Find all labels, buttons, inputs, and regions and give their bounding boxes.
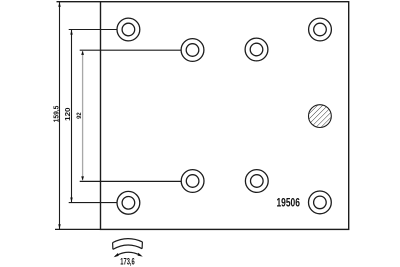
svg-text:173,6: 173,6 — [120, 257, 134, 267]
rivet hole H4 top-right — [309, 18, 332, 41]
extension line: bottom edge extended left — [55, 228, 101, 230]
rivet hole H5 bottom inner-left — [181, 170, 204, 193]
svg-text:159,5: 159,5 — [51, 106, 60, 123]
extension line to top outer hole row — [69, 29, 117, 31]
extension line to top inner hole row — [80, 49, 182, 51]
rivet hole H3 top inner-right — [245, 38, 268, 61]
lining cross-section symbol: outer arc — [113, 239, 143, 243]
svg-text:19506: 19506 — [277, 196, 301, 210]
arrowhead left of width arrow — [114, 253, 119, 257]
rivet hole H1 top-left — [117, 18, 140, 41]
svg-text:120: 120 — [63, 108, 72, 121]
backing plate outline — [101, 2, 349, 230]
arrow down dim3 — [81, 176, 84, 180]
curved width dimension arrow — [115, 252, 141, 256]
extension line: top edge extended left — [57, 1, 101, 3]
extension line to bottom inner hole row — [80, 180, 182, 182]
dimension line 120 (outer hole rows) — [71, 30, 73, 203]
arrowhead right of width arrow — [138, 253, 143, 257]
rivet hole H8 bottom-right — [309, 191, 332, 214]
lining cross-section symbol: right end — [141, 242, 143, 249]
rivet hole H7 bottom-left — [117, 191, 140, 214]
arrow up dim1 — [58, 2, 61, 7]
dimension line 92 (inner hole rows, gray) — [82, 51, 84, 180]
dimension line 159,5 (overall) — [59, 2, 61, 230]
lining cross-section symbol: inner arc — [113, 245, 142, 249]
rivet hole H6 bottom inner-right — [245, 170, 268, 193]
lining cross-section symbol: left end — [112, 243, 114, 250]
extension line to bottom outer hole row — [69, 202, 117, 204]
arrow up dim2 — [70, 30, 73, 35]
arrow down dim1 — [58, 224, 61, 229]
arrow up dim3 — [81, 51, 84, 55]
arrow down dim2 — [70, 198, 73, 203]
hatched wear-sensor hole — [309, 105, 332, 128]
svg-text:92: 92 — [76, 112, 83, 119]
rivet hole H2 top inner-left — [181, 39, 204, 62]
